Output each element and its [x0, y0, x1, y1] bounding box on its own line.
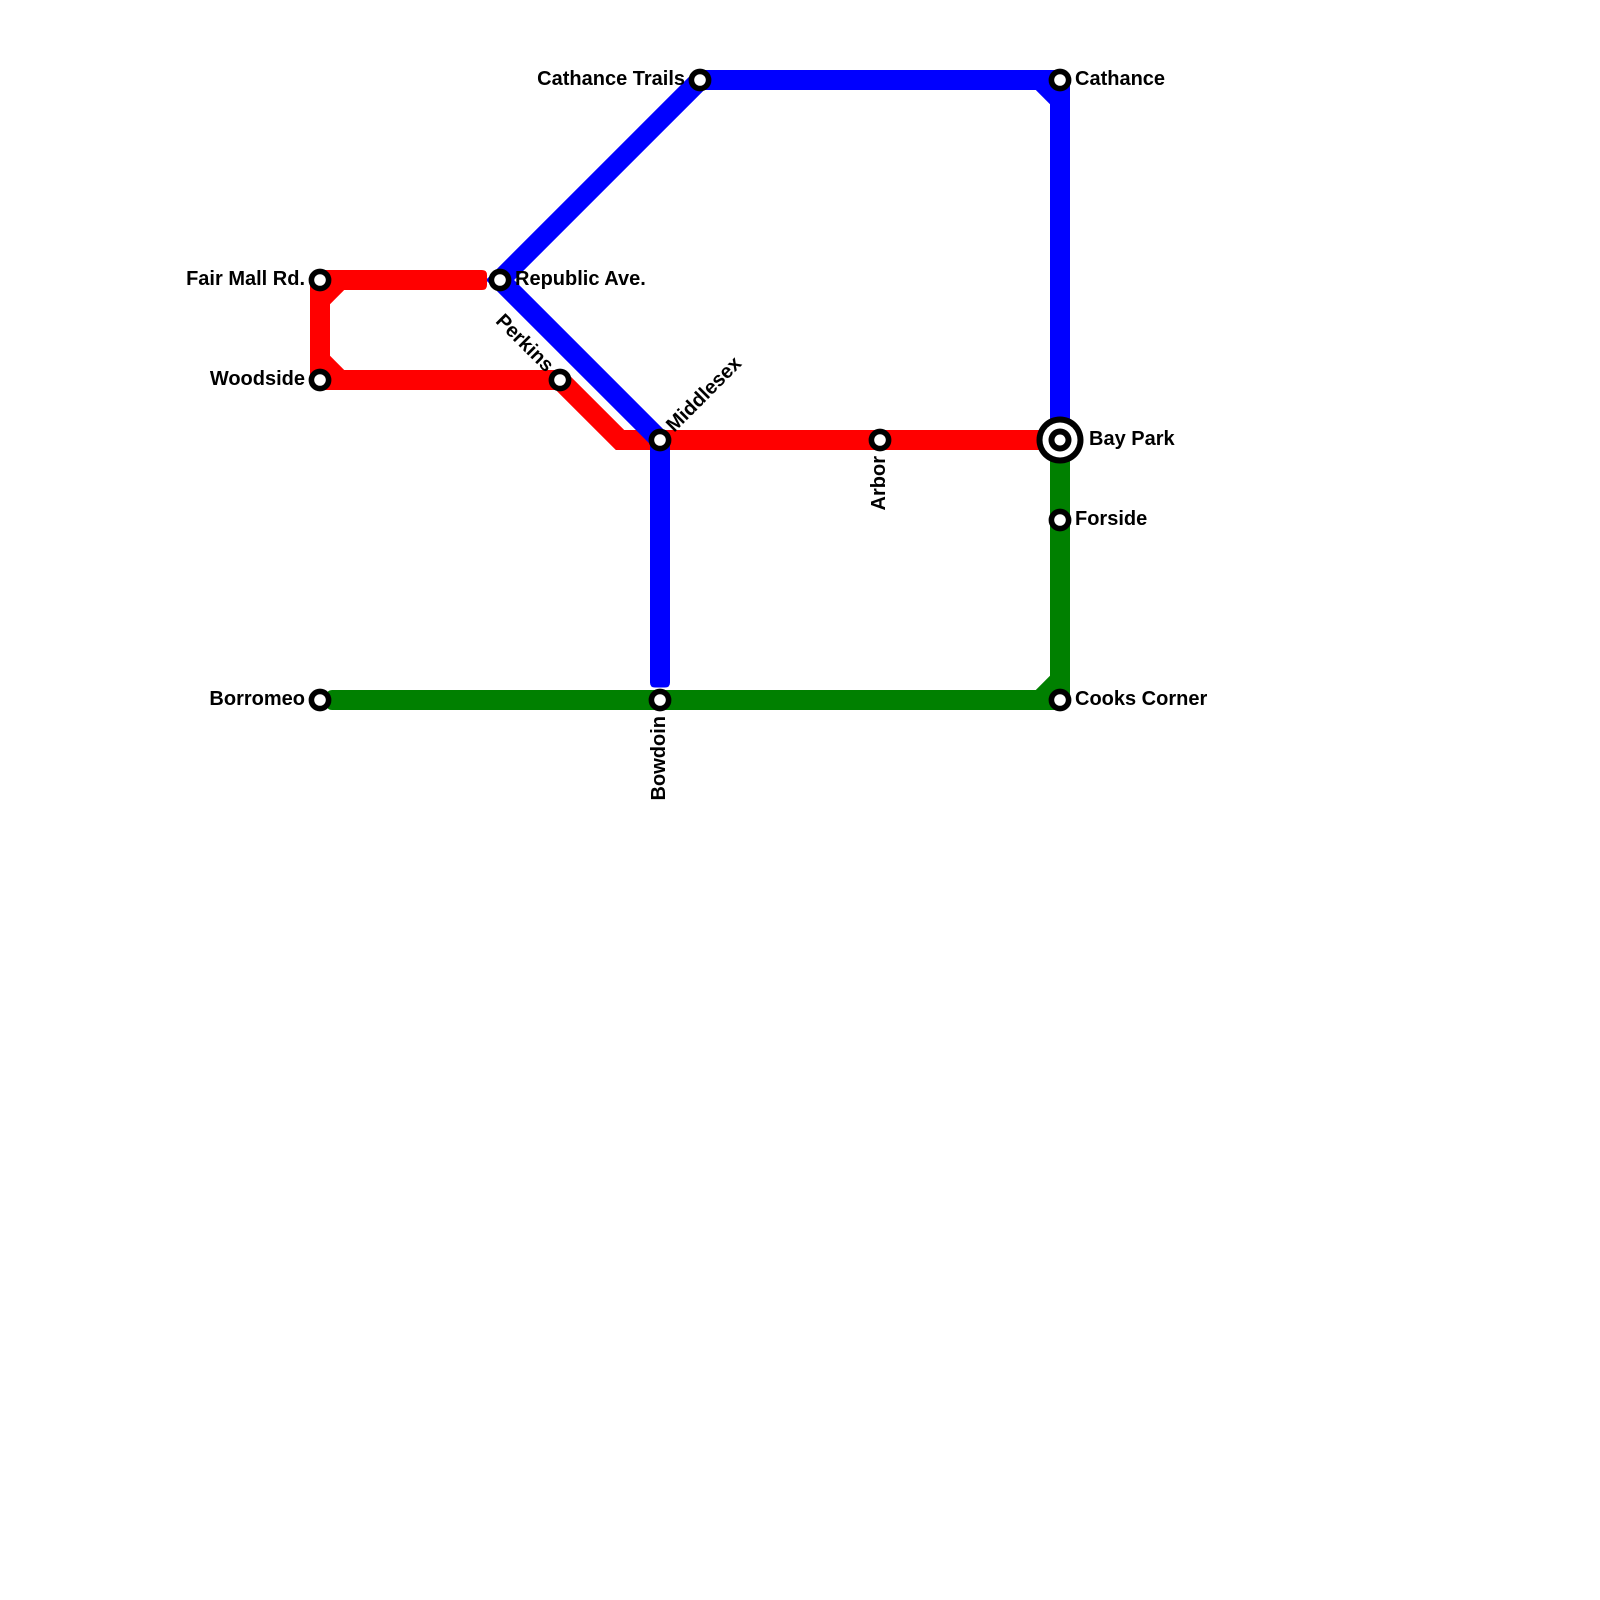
- svg-text:Forside: Forside: [1075, 508, 1147, 530]
- svg-text:Arbor: Arbor: [868, 456, 890, 511]
- svg-text:Cathance Trails: Cathance Trails: [537, 68, 685, 90]
- svg-text:Borromeo: Borromeo: [209, 688, 305, 710]
- svg-text:Republic Ave.: Republic Ave.: [515, 268, 646, 290]
- svg-text:Bay Park: Bay Park: [1089, 428, 1175, 450]
- svg-text:Cooks Corner: Cooks Corner: [1075, 688, 1207, 710]
- svg-text:Bowdoin: Bowdoin: [648, 716, 670, 800]
- svg-text:Cathance: Cathance: [1075, 68, 1165, 90]
- svg-text:Fair Mall Rd.: Fair Mall Rd.: [186, 268, 305, 290]
- svg-text:Woodside: Woodside: [210, 368, 305, 390]
